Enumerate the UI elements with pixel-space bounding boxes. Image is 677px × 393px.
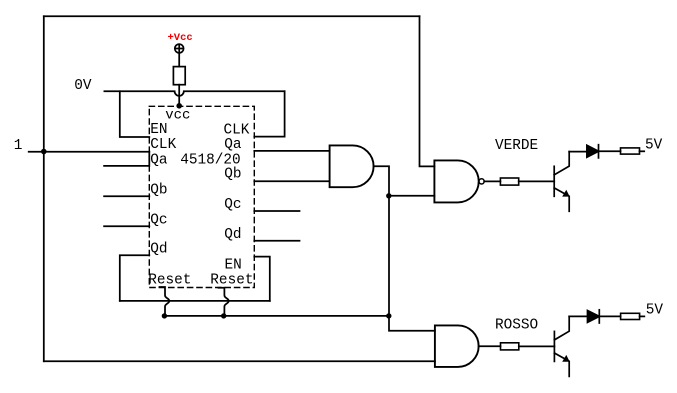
- resistor R2: [500, 178, 518, 185]
- wire R3 to 5V: [640, 150, 645, 152]
- wire Q2 collector to diode: [569, 315, 587, 317]
- svg-text:Qc: Qc: [224, 197, 241, 213]
- wire left Qc pin: [104, 225, 149, 227]
- nand bubble: [479, 179, 484, 184]
- wire 0V to right CLK pin: [254, 91, 284, 136]
- svg-text:0V: 0V: [74, 78, 92, 94]
- and-gate U4 ROSSO: [435, 325, 479, 367]
- wire 0V rail with hop: [104, 91, 284, 96]
- wire Reset pin 2 with hop: [219, 288, 229, 316]
- wire resistor to vcc pin: [178, 85, 180, 106]
- resistor R4: [501, 343, 519, 350]
- resistor R5: [621, 313, 640, 319]
- IC pin labels: [148, 108, 253, 289]
- svg-text:1: 1: [14, 138, 23, 154]
- wire reset tie line: [164, 315, 389, 317]
- wire to Q1 base: [519, 180, 555, 182]
- svg-text:Qb: Qb: [224, 167, 241, 183]
- wire frame right vertical to NAND input: [420, 16, 435, 166]
- junction dot U2 out / NAND in: [386, 193, 391, 198]
- wire bottom frame to ROSSO AND input: [44, 360, 435, 362]
- svg-text:Qa: Qa: [224, 137, 242, 153]
- svg-text:Reset: Reset: [210, 272, 253, 288]
- svg-text:EN: EN: [150, 122, 167, 138]
- svg-text:Reset: Reset: [148, 272, 191, 288]
- svg-text:Qd: Qd: [150, 242, 167, 258]
- wire Q1 collector to diode: [569, 151, 587, 153]
- svg-text:5V: 5V: [646, 302, 664, 318]
- Q2 emitter arrow: [562, 355, 570, 362]
- wire D1 to R3: [599, 150, 621, 152]
- wire top frame horizontal: [44, 15, 420, 17]
- transistor Q2: [554, 316, 569, 376]
- junction dot vcc pin: [176, 103, 182, 109]
- wire Vcc to resistor: [178, 53, 180, 67]
- wire Reset pin 1 with hop: [160, 287, 170, 316]
- svg-text:CLK: CLK: [150, 137, 176, 153]
- junction dot reset2: [221, 313, 226, 318]
- wire R5 to 5V: [640, 315, 645, 317]
- wire to NAND bottom input: [389, 195, 434, 197]
- diode D2: [588, 311, 600, 323]
- Q1 emitter arrow: [562, 190, 570, 197]
- wire left frame vertical: [43, 16, 45, 361]
- wire right Qc pin open: [254, 210, 299, 212]
- wire U2 output down: [374, 166, 435, 330]
- wire nand out: [484, 180, 500, 182]
- wire right EN pin down: [254, 257, 269, 301]
- wire right Qa pin to AND input: [254, 150, 329, 152]
- D2 cathode bar: [598, 310, 600, 323]
- svg-text:Qa: Qa: [150, 153, 168, 169]
- wire to Q2 base: [519, 345, 555, 347]
- wire D2 to R5: [599, 315, 620, 317]
- svg-text:5V: 5V: [645, 137, 663, 153]
- and-gate U2: [330, 145, 374, 187]
- wire Qd-to-EN bottom link: [120, 300, 270, 302]
- svg-text:+Vcc: +Vcc: [168, 32, 193, 44]
- svg-text:Qd: Qd: [224, 227, 241, 243]
- svg-text:Qc: Qc: [150, 213, 167, 229]
- wire right Qd pin open: [254, 240, 299, 242]
- node A junction dot: [41, 149, 47, 155]
- transistor Q1: [554, 152, 569, 212]
- resistor R3: [621, 148, 640, 154]
- resistor R1 vertical: [173, 67, 185, 85]
- wire left Qb pin: [104, 195, 149, 197]
- wire right Qb pin to AND input: [254, 180, 329, 182]
- nand-gate U3 VERDE: [434, 160, 478, 202]
- wire CLK pin joins Qa pin: [104, 152, 149, 166]
- IC U1 4518/20 dashed box: [149, 106, 254, 287]
- D1 cathode bar: [598, 145, 600, 158]
- diode D1: [587, 145, 599, 157]
- wire left Qd pin down to bottom: [120, 255, 150, 301]
- svg-text:vcc: vcc: [165, 108, 190, 124]
- junction dot reset line: [386, 313, 391, 318]
- svg-text:ROSSO: ROSSO: [495, 318, 538, 334]
- wire U4 out: [479, 345, 501, 347]
- svg-text:VERDE: VERDE: [495, 138, 538, 154]
- junction dot reset1: [162, 313, 167, 318]
- wire 0V to EN left pin: [120, 91, 150, 137]
- wire node1 to CLK pin: [29, 151, 150, 153]
- svg-text:EN: EN: [225, 258, 242, 274]
- power symbol circle-plus: [175, 44, 184, 53]
- svg-text:Qb: Qb: [150, 183, 167, 199]
